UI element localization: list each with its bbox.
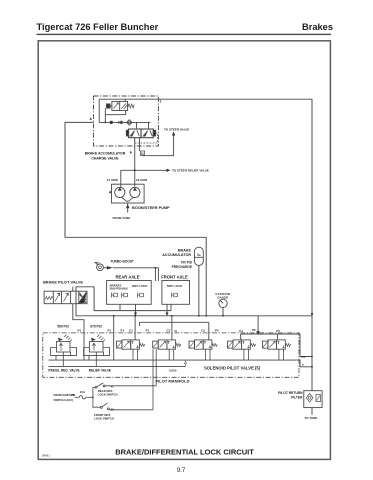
svg-text:39: 39 [111, 407, 115, 411]
svg-text:560 PSI: 560 PSI [57, 324, 68, 328]
svg-text:T: T [302, 363, 304, 367]
svg-text:LOCK SWITCH: LOCK SWITCH [98, 393, 118, 397]
svg-text:P1: P1 [146, 328, 150, 332]
svg-text:1: 1 [160, 100, 162, 104]
svg-text:FRONT AXLE: FRONT AXLE [161, 274, 188, 279]
svg-text:BRAKE PILOT VALVE: BRAKE PILOT VALVE [43, 279, 83, 284]
svg-text:Tigercat 726 Feller Buncher: Tigercat 726 Feller Buncher [37, 22, 159, 32]
svg-text:C2: C2 [167, 328, 171, 332]
svg-text:P1: P1 [121, 328, 125, 332]
svg-text:PILOT MANIFOLD: PILOT MANIFOLD [156, 379, 190, 384]
svg-text:CHARGE VALVE: CHARGE VALVE [91, 157, 119, 161]
svg-text:REAR AXLE: REAR AXLE [115, 274, 139, 279]
svg-text:9.7: 9.7 [177, 468, 186, 474]
svg-text:BOOM/STEER PUMP: BOOM/STEER PUMP [132, 206, 170, 210]
svg-text:SWITCH (ACC): SWITCH (ACC) [54, 398, 74, 402]
svg-text:PRESS. RED. VALVE: PRESS. RED. VALVE [48, 368, 79, 372]
svg-text:ACCUMULATOR: ACCUMULATOR [162, 253, 191, 257]
svg-text:N: N [175, 329, 177, 333]
svg-text:TURBO BOOST: TURBO BOOST [110, 259, 134, 263]
svg-text:DIFF. LOCK: DIFF. LOCK [132, 284, 147, 288]
svg-text:P1: P1 [108, 328, 112, 332]
svg-text:19 GPM: 19 GPM [136, 178, 148, 182]
svg-text:C1: C1 [129, 328, 133, 332]
svg-text:1000 PSI MAX: 1000 PSI MAX [109, 287, 128, 291]
svg-text:BRAKE ACCUMULATOR: BRAKE ACCUMULATOR [85, 152, 126, 156]
svg-text:27 GPM: 27 GPM [107, 178, 119, 182]
svg-text:TO STEER VALVE: TO STEER VALVE [164, 128, 189, 132]
svg-text:P1: P1 [78, 328, 82, 332]
svg-text:TO TANK: TO TANK [304, 416, 318, 420]
svg-text:LOCK SWITCH: LOCK SWITCH [94, 417, 114, 421]
svg-text:GAUGE: GAUGE [217, 296, 228, 300]
svg-text:SOLENOID PILOT VALVE (5): SOLENOID PILOT VALVE (5) [204, 366, 261, 371]
svg-text:C5: C5 [276, 329, 280, 333]
svg-text:09431: 09431 [42, 454, 50, 458]
svg-text:Brakes: Brakes [302, 22, 333, 32]
svg-text:10A: 10A [80, 390, 85, 394]
svg-text:P2: P2 [252, 328, 256, 332]
svg-text:41: 41 [111, 385, 115, 389]
svg-text:PRECHARGE: PRECHARGE [172, 265, 192, 269]
svg-text:BRAKE/DIFFERENTIAL LOCK CIRCUI: BRAKE/DIFFERENTIAL LOCK CIRCUIT [115, 448, 254, 457]
svg-text:20: 20 [71, 393, 75, 397]
svg-text:BRAKE: BRAKE [178, 249, 192, 253]
svg-text:RELIEF VALVE: RELIEF VALVE [89, 368, 111, 372]
svg-text:FROM TANK: FROM TANK [113, 216, 132, 220]
svg-text:FILTER: FILTER [291, 395, 303, 399]
svg-text:P: P [130, 151, 133, 155]
svg-text:C4: C4 [239, 329, 243, 333]
svg-text:TO STEER RELIEF VALVE: TO STEER RELIEF VALVE [172, 169, 209, 173]
svg-text:P2: P2 [302, 355, 306, 359]
svg-text:675 PSI: 675 PSI [90, 324, 101, 328]
svg-text:P2: P2 [215, 328, 219, 332]
svg-text:DIFF. LOCK: DIFF. LOCK [167, 284, 182, 288]
svg-text:PILOT RETURN: PILOT RETURN [278, 391, 303, 395]
svg-text:A: A [90, 117, 93, 121]
svg-text:C3: C3 [201, 328, 205, 332]
svg-text:0.055: 0.055 [169, 369, 177, 373]
